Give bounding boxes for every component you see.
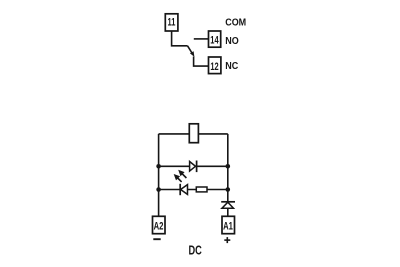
svg-text:A1: A1 — [223, 220, 233, 233]
svg-text:COM: COM — [225, 17, 246, 29]
svg-text:NO: NO — [225, 35, 238, 47]
svg-text:14: 14 — [210, 33, 219, 46]
svg-text:12: 12 — [210, 59, 218, 72]
svg-text:DC: DC — [189, 244, 202, 258]
svg-text:A2: A2 — [154, 220, 164, 233]
svg-text:NC: NC — [225, 61, 238, 73]
svg-text:11: 11 — [168, 15, 176, 28]
